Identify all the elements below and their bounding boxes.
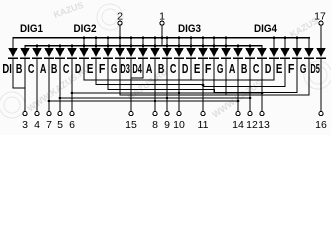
svg-text:7: 7: [46, 119, 52, 131]
diode DIG4 seg E: [280, 48, 290, 59]
wire rail1 drop to diode col 17: [213, 37, 214, 48]
wire to pin 11: [202, 76, 203, 112]
wire rail1 drop to diode col 12: [154, 37, 155, 48]
svg-text:WWW.KAZUS.RU: WWW.KAZUS.RU: [25, 63, 91, 114]
wire cathode col 0: [12, 59, 13, 77]
diode DIG3 seg F: [209, 48, 219, 59]
diode DIG3 seg A: [150, 48, 160, 59]
wire cathode col 7: [95, 59, 96, 77]
pin 7 terminal: [46, 112, 52, 132]
svg-text:4: 4: [34, 119, 40, 131]
wire to pin 8: [154, 76, 155, 112]
wire segment A bus: [49, 100, 239, 101]
wire cathode col 22: [273, 59, 274, 77]
wire tap col 23 to bus: [284, 76, 285, 87]
pin 6 terminal: [69, 112, 75, 132]
pin 3 terminal: [22, 112, 28, 132]
svg-text:E: E: [194, 61, 201, 76]
pin 5 terminal: [57, 112, 63, 132]
diode DIG2 seg G: [115, 48, 125, 59]
wire rail1 drop to diode col 14: [178, 37, 179, 48]
wire cathode col 21: [261, 59, 262, 77]
diode DIG4 seg B: [245, 48, 255, 59]
wire cathode col 14: [178, 59, 179, 77]
wire cathode col 4: [59, 59, 60, 77]
svg-text:10: 10: [173, 119, 185, 131]
diode DIG4 seg G: [304, 48, 314, 59]
diode DIG4 seg F: [292, 48, 302, 59]
svg-text:D5: D5: [310, 61, 320, 76]
wire rail2 stub to diode col 2: [36, 45, 37, 48]
svg-text:B: B: [241, 61, 248, 76]
svg-text:F: F: [99, 61, 106, 76]
wire second rail (anode sub-bus): [24, 45, 262, 46]
svg-text:6: 6: [69, 119, 75, 131]
svg-text:11: 11: [198, 119, 209, 131]
wire to pin 14: [237, 76, 238, 112]
diode D3 colon: [126, 48, 136, 59]
wire cathode col 1: [24, 59, 25, 77]
wire to pin 4: [36, 76, 37, 112]
svg-text:D: D: [182, 61, 189, 76]
wire to pin 16: [320, 76, 321, 112]
svg-text:17: 17: [314, 11, 326, 23]
wire rail1 drop to diode col 15: [190, 37, 191, 48]
diode DIG3 seg D: [186, 48, 196, 59]
svg-text:D: D: [265, 61, 272, 76]
wire cathode col 11: [142, 59, 143, 77]
svg-text:A: A: [229, 61, 236, 76]
wire cathode col 8: [107, 59, 108, 77]
svg-text:3: 3: [22, 119, 28, 131]
wire cathode col 15: [190, 59, 191, 77]
svg-text:F: F: [288, 61, 295, 76]
svg-text:D3: D3: [120, 61, 130, 76]
pin 17 terminal: [314, 11, 326, 49]
wire segment F bus: [108, 89, 215, 90]
wire cathode col 18: [225, 59, 226, 77]
svg-text:5: 5: [57, 119, 63, 131]
wire rail1 drop to diode col 22: [273, 37, 274, 48]
svg-text:8: 8: [152, 119, 158, 131]
wire cathode col 25: [308, 59, 309, 77]
svg-text:13: 13: [258, 119, 270, 131]
svg-text:C: C: [63, 61, 70, 76]
wire cathode col 3: [48, 59, 49, 77]
wire D1 jog to pin 3 net: [12, 76, 13, 89]
diode D5 indicator: [316, 48, 326, 59]
pin 13 terminal: [258, 112, 270, 132]
svg-text:DIG1: DIG1: [20, 23, 43, 35]
svg-text:DIG3: DIG3: [178, 23, 201, 35]
svg-text:B: B: [158, 61, 165, 76]
svg-text:A: A: [146, 61, 153, 76]
svg-text:G: G: [217, 61, 224, 76]
wire to pin 12: [249, 76, 250, 112]
diode DIG4 seg C: [257, 48, 267, 59]
wire rail1 drop to diode col 11: [142, 37, 143, 48]
wire cathode col 17: [213, 59, 214, 77]
svg-text:15: 15: [125, 119, 137, 131]
svg-text:KAZUS: KAZUS: [52, 0, 85, 20]
wire segment B bus: [60, 97, 251, 98]
svg-text:C: C: [170, 61, 177, 76]
diode DIG1 seg C: [32, 48, 42, 59]
wire rail1 drop to diode col 23: [284, 37, 285, 48]
wire rail2 stub to diode col 5: [71, 45, 72, 48]
wire rail1 drop to diode col 24: [296, 37, 297, 48]
wire segment C bus: [72, 92, 263, 93]
wire to pin 6: [71, 76, 72, 112]
pin 10 terminal: [173, 112, 185, 132]
wire tap col 7 to bus: [95, 76, 96, 85]
pin 11 terminal: [198, 112, 209, 132]
wire cathode col 19: [237, 59, 238, 77]
pin 1 terminal: [159, 11, 165, 47]
diode DIG3 seg C: [174, 48, 184, 59]
wire tap col 6 to bus: [83, 76, 84, 81]
wire rail2 left corner down to diode B1: [24, 45, 25, 48]
diode DIG3 seg G: [221, 48, 231, 59]
wire tap col 25 to bus: [308, 76, 309, 96]
wire segment D bus: [84, 79, 275, 80]
svg-text:C: C: [28, 61, 35, 76]
svg-text:WWW.KAZUS: WWW.KAZUS: [210, 78, 264, 120]
svg-text:14: 14: [232, 119, 244, 131]
wire rail1 drop to diode col 10: [130, 37, 131, 48]
svg-text:E: E: [87, 61, 94, 76]
svg-text:C: C: [253, 61, 260, 76]
diode DIG3 seg B: [162, 48, 172, 59]
pin 8 terminal: [152, 112, 158, 132]
wire tap col 8 to bus: [107, 76, 108, 90]
pin 15 terminal: [125, 112, 137, 132]
wire cathode col 9: [119, 59, 120, 77]
wire rail1 left corner down to diode D1: [12, 37, 13, 48]
wire rail1 drop to diode col 8: [107, 37, 108, 48]
wire cathode col 24: [296, 59, 297, 77]
wire cathode col 6: [83, 59, 84, 77]
wire to pin 15: [130, 76, 131, 112]
wire rail1 right corner down to diode G4: [308, 37, 309, 48]
wire rail1 drop to diode col 18: [225, 37, 226, 48]
svg-text:DI: DI: [2, 61, 12, 76]
diode DIG4 seg D: [269, 48, 279, 59]
wire to pin 5: [59, 76, 60, 112]
wire tap col 15 to bus: [190, 76, 191, 81]
wire cathode col 2: [36, 59, 37, 77]
wire to pin 7: [48, 76, 49, 112]
wire D4 colon jog to pin 15 net: [142, 76, 143, 79]
pin 14 terminal: [232, 112, 244, 132]
wire rail1 drop to diode col 9: [119, 37, 120, 48]
wire rail1 drop to diode col 16: [202, 37, 203, 48]
diode DIG2 seg A: [44, 48, 54, 59]
svg-text:A: A: [40, 61, 47, 76]
wire rail2 stub to diode col 19: [237, 45, 238, 48]
pin 9 terminal: [164, 112, 170, 132]
diode D4 colon: [138, 48, 148, 59]
wire segment E bus: [96, 84, 204, 85]
svg-text:G: G: [300, 61, 307, 76]
svg-text:G: G: [111, 61, 118, 76]
wire rail1 drop to diode col 7: [95, 37, 96, 48]
wire tap col 18 to bus: [225, 76, 226, 96]
svg-text:B: B: [16, 61, 23, 76]
svg-text:B: B: [51, 61, 58, 76]
wire to pin 13: [261, 76, 262, 112]
diode DIG2 seg D: [79, 48, 89, 59]
svg-text:12: 12: [246, 119, 258, 131]
diode DIG2 seg C: [67, 48, 77, 59]
svg-text:D4: D4: [132, 61, 142, 76]
wire rail1 drop to diode col 13: [166, 37, 167, 48]
wire rail1 drop to diode col 6: [83, 37, 84, 48]
svg-text:D: D: [75, 61, 82, 76]
wire cathode col 5: [71, 59, 72, 77]
wire tap col 17 to bus: [213, 76, 214, 90]
pin 2 terminal: [117, 11, 123, 49]
pin 16 terminal: [315, 112, 327, 132]
wire tap col 9 to bus: [119, 76, 120, 96]
diode DIG4 seg A: [233, 48, 243, 59]
wire cathode col 20: [249, 59, 250, 77]
wire cathode col 16: [202, 59, 203, 77]
diode DIG3 seg E: [198, 48, 208, 59]
wire to pin 9: [166, 76, 167, 112]
wire rail2 stub to diode col 4: [59, 45, 60, 48]
wire cathode col 23: [284, 59, 285, 77]
wire tap col 22 to bus: [273, 76, 274, 81]
diode DIG2 seg B: [55, 48, 65, 59]
diode DIG1 seg B: [20, 48, 30, 59]
svg-text:F: F: [205, 61, 212, 76]
pin 4 terminal: [34, 112, 40, 132]
wire rail2 right corner down to diode C4: [261, 45, 262, 48]
svg-text:16: 16: [315, 119, 327, 131]
wire cathode col 13: [166, 59, 167, 77]
wire cathode col 12: [154, 59, 155, 77]
wire cathode col 10: [130, 59, 131, 77]
svg-text:DIG4: DIG4: [254, 23, 278, 35]
pin 12 terminal: [246, 112, 258, 132]
wire cathode col 26: [320, 59, 321, 77]
svg-text:DIG2: DIG2: [74, 23, 97, 35]
diode D1 indicator: [8, 48, 18, 59]
wire rail2 stub to diode col 3: [48, 45, 49, 48]
wire top rail (anode bus): [12, 37, 310, 38]
svg-text:E: E: [276, 61, 283, 76]
diode DIG2 seg E: [91, 48, 101, 59]
wire to pin 10: [178, 76, 179, 112]
diode DIG2 seg F: [103, 48, 113, 59]
wire rail2 stub to diode col 20: [249, 45, 250, 48]
wire tap col 24 to bus: [296, 76, 297, 93]
svg-text:9: 9: [164, 119, 170, 131]
wire segment G bus: [120, 94, 310, 95]
wire to pin 3: [24, 76, 25, 112]
